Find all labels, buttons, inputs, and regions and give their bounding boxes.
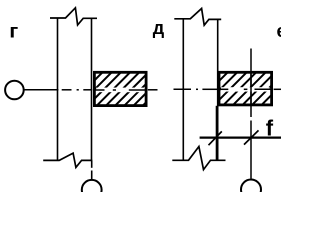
beam section (fig д) hatched <box>183 70 307 108</box>
beam section (fig г) hatched <box>67 70 179 108</box>
axis circle left (fig г) <box>5 81 24 100</box>
beam outline (fig г) <box>94 72 146 105</box>
center line white band through beam (fig г) <box>96 88 144 93</box>
wall break top (fig д) <box>174 9 221 26</box>
svg-text:д: д <box>153 18 165 38</box>
wall break bottom (fig г) <box>43 153 92 167</box>
beam axis vertical line (fig д) <box>250 49 252 118</box>
wall right line (fig д) <box>217 19 219 160</box>
hatch lines (fig д) <box>183 70 307 108</box>
hatch lines (fig г) <box>67 70 179 108</box>
svg-text:г: г <box>9 20 18 42</box>
svg-text:е: е <box>277 21 282 41</box>
center line horizontal (fig г) <box>24 89 92 91</box>
oblique tick left <box>209 131 222 145</box>
axis stub to circle (fig г) <box>91 160 93 167</box>
svg-text:f: f <box>266 116 274 141</box>
wall break top (fig г) <box>50 8 97 25</box>
extension line from beam bottom corner <box>215 106 217 161</box>
center line dash-dot through beam (fig г) <box>93 89 158 91</box>
axis circle bottom (fig д) <box>241 180 261 200</box>
dimension f (fig д) <box>200 106 281 161</box>
center line horizontal (fig д) <box>174 88 218 90</box>
center line dash-dot through beam (fig д) <box>217 88 281 90</box>
beam outline (fig д) <box>219 72 272 105</box>
wall left line (fig г) <box>57 18 59 160</box>
wall right line (fig г) <box>91 18 93 160</box>
wall break bottom (fig д) <box>172 147 225 170</box>
dimension line <box>200 137 281 139</box>
beam axis over hatch (fig д) <box>250 72 252 105</box>
wall left line (fig д) <box>182 19 184 161</box>
axis circle bottom (fig г) <box>82 180 102 200</box>
center line white band through beam (fig д) <box>221 87 270 91</box>
oblique tick right <box>244 130 259 144</box>
